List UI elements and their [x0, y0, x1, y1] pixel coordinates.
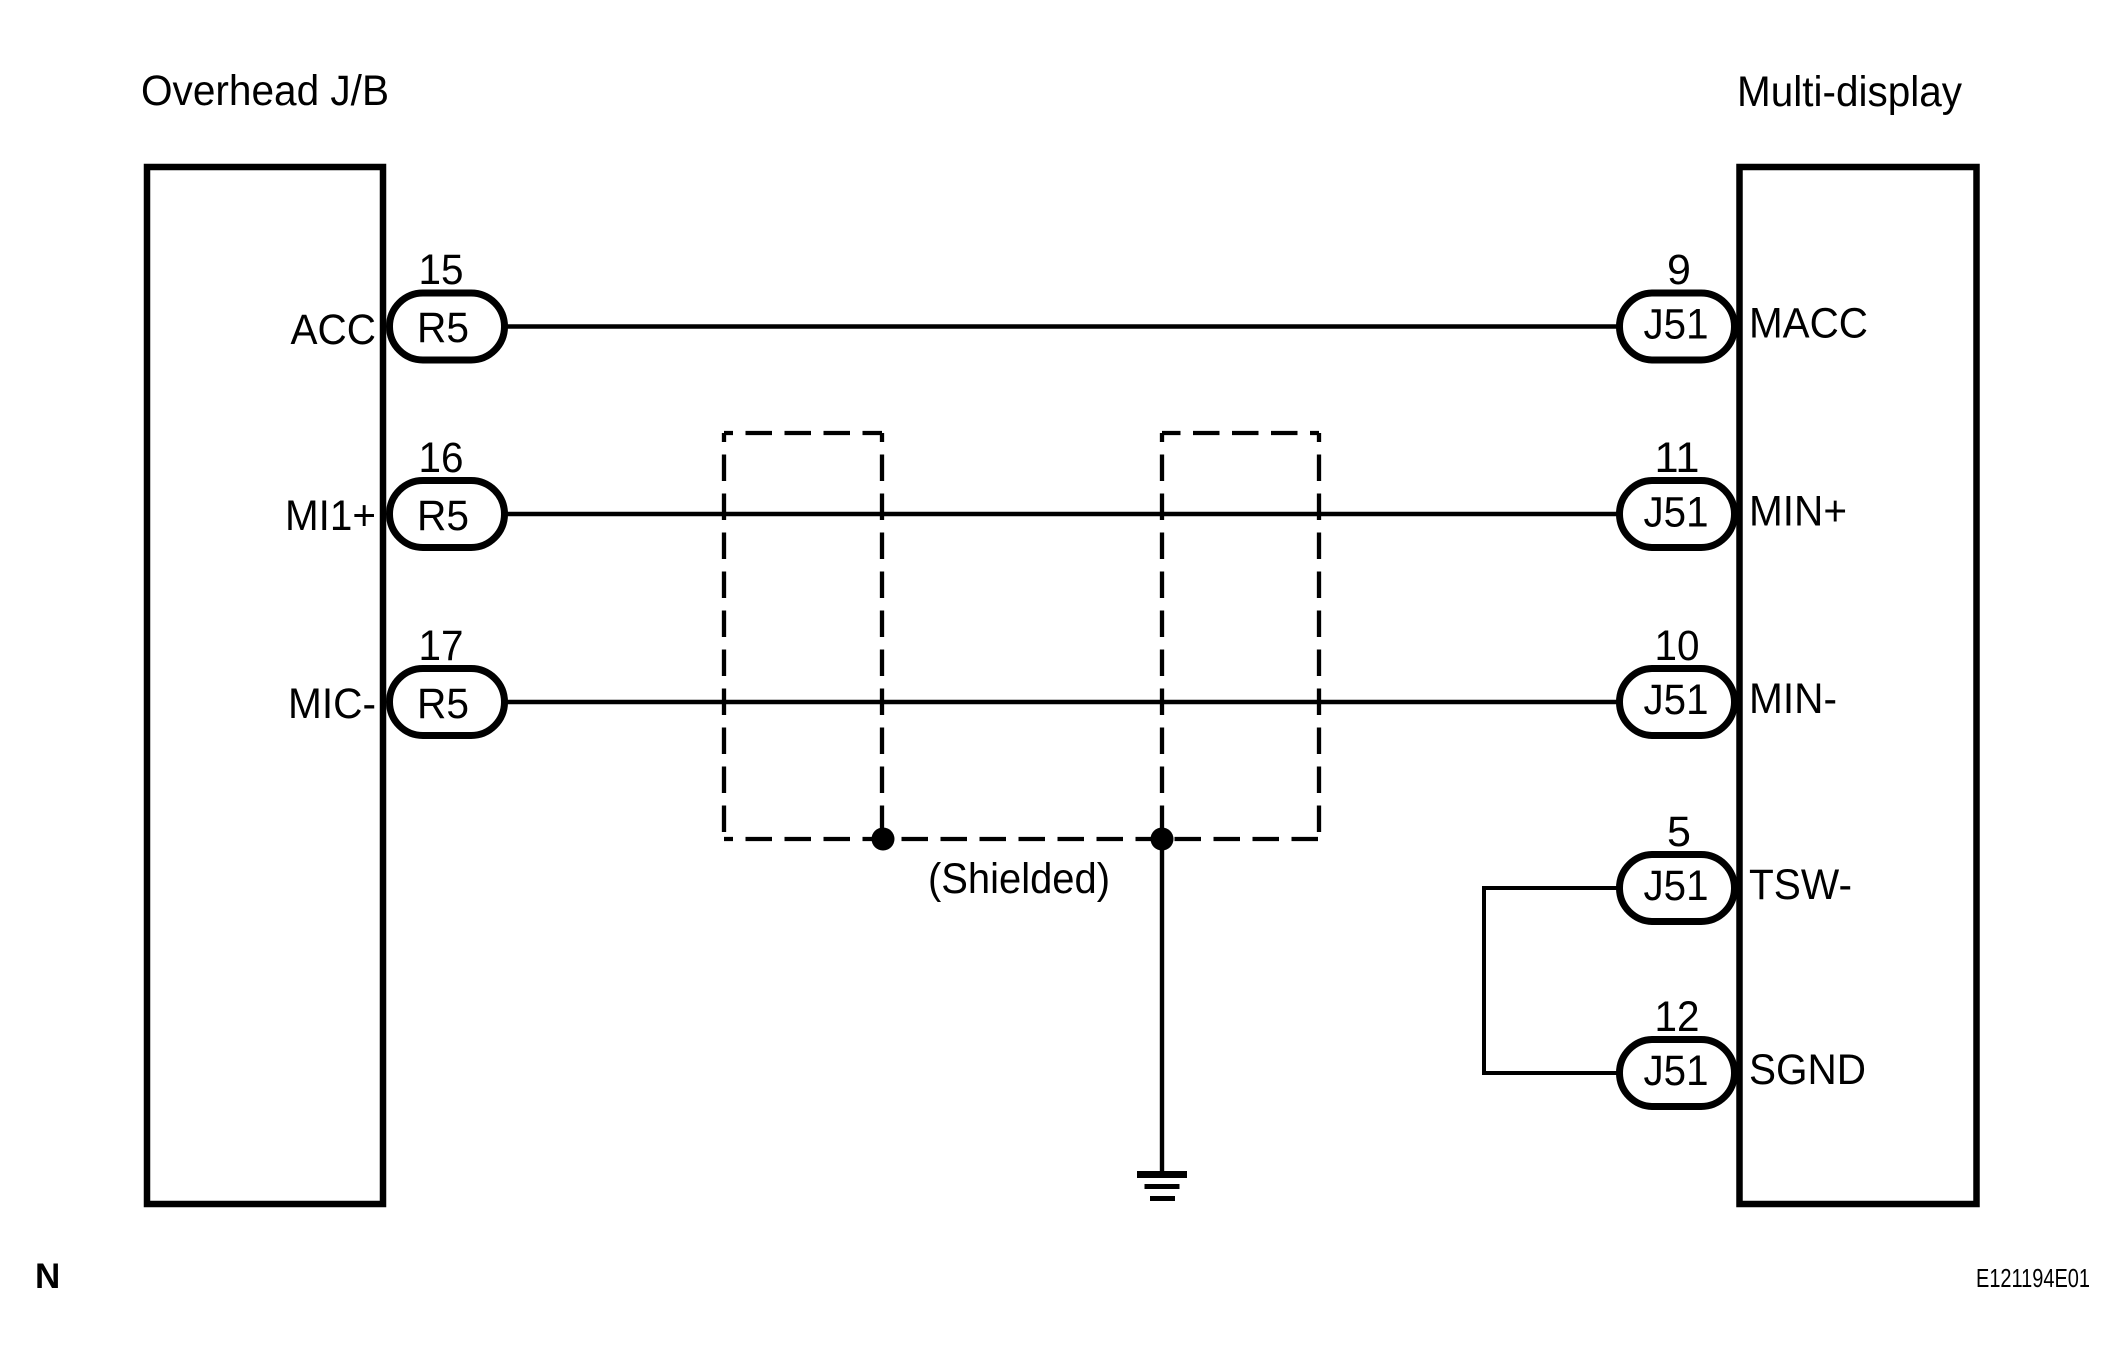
junction dot left shield	[872, 828, 895, 851]
svg-text:MIN+: MIN+	[1749, 488, 1847, 536]
terminal oval R5 pin 16	[390, 481, 505, 548]
junction dot right shield	[1151, 828, 1174, 851]
svg-text:MIC-: MIC-	[288, 680, 376, 728]
svg-text:ACC: ACC	[291, 306, 377, 354]
connector block Overhead J/B	[147, 167, 383, 1204]
svg-text:Multi-display: Multi-display	[1737, 68, 1962, 116]
svg-text:10: 10	[1655, 622, 1700, 670]
svg-text:R5: R5	[417, 492, 469, 540]
svg-text:9: 9	[1667, 246, 1691, 294]
wire MIC- to MIN-	[500, 700, 1622, 704]
svg-text:E121194E01: E121194E01	[1976, 1263, 2090, 1293]
svg-text:R5: R5	[417, 680, 469, 728]
terminal oval R5 pin 15	[390, 293, 505, 360]
shield dashed box right	[1162, 433, 1319, 839]
svg-text:15: 15	[419, 246, 464, 294]
svg-text:SGND: SGND	[1749, 1046, 1866, 1094]
terminal oval J51 pin 11	[1620, 481, 1735, 548]
svg-text:MI1+: MI1+	[285, 492, 376, 540]
terminal oval J51 pin 5	[1620, 855, 1735, 922]
svg-text:MIN-: MIN-	[1749, 675, 1837, 723]
svg-text:J51: J51	[1644, 1047, 1709, 1095]
svg-text:J51: J51	[1644, 862, 1709, 910]
terminal oval J51 pin 12	[1620, 1040, 1735, 1107]
svg-text:J51: J51	[1644, 676, 1709, 724]
svg-text:17: 17	[419, 622, 464, 670]
svg-text:16: 16	[419, 434, 464, 482]
svg-text:MACC: MACC	[1749, 300, 1868, 348]
svg-text:11: 11	[1655, 434, 1700, 482]
svg-text:TSW-: TSW-	[1749, 861, 1852, 909]
svg-text:12: 12	[1655, 993, 1700, 1041]
svg-text:(Shielded): (Shielded)	[928, 855, 1110, 903]
connector block Multi-display	[1740, 167, 1977, 1204]
terminal oval J51 pin 9	[1620, 293, 1735, 360]
wire MI1+ to MIN+	[500, 512, 1622, 516]
terminal oval R5 pin 17	[390, 669, 505, 736]
svg-text:Overhead J/B: Overhead J/B	[141, 67, 389, 115]
wire TSW- to SGND jumper	[1484, 888, 1622, 1073]
svg-text:5: 5	[1667, 808, 1691, 856]
svg-text:J51: J51	[1644, 489, 1709, 537]
wire ACC to MACC	[500, 324, 1622, 328]
svg-text:R5: R5	[417, 304, 469, 352]
terminal oval J51 pin 10	[1620, 669, 1735, 736]
shield dashed box left	[724, 433, 882, 839]
wire shield to ground	[1160, 839, 1164, 1171]
shield dashed bottom run	[724, 837, 1319, 841]
svg-text:J51: J51	[1644, 301, 1709, 349]
svg-text:N: N	[35, 1257, 60, 1296]
ground	[1137, 1175, 1187, 1199]
